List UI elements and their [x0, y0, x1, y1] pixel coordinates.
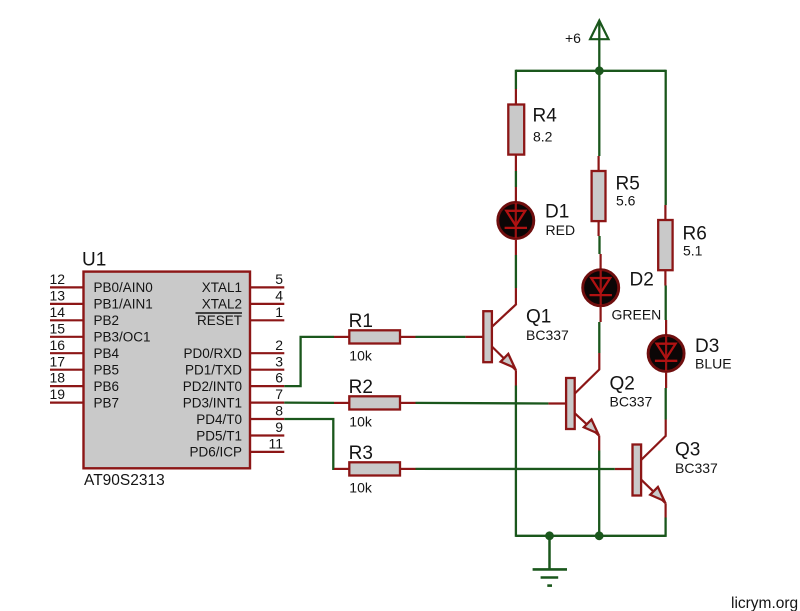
pin 9 PD5/T1 — [196, 419, 284, 443]
pin 18 PB6 — [50, 370, 120, 394]
microcontroller U1 box — [84, 272, 251, 469]
svg-text:10k: 10k — [349, 480, 373, 496]
pin stub R5 bottom — [597, 221, 599, 236]
pin stub Q3 emitter — [664, 503, 666, 517]
svg-text:PB3/OC1: PB3/OC1 — [94, 330, 151, 345]
pin stub R2 left — [334, 402, 349, 404]
svg-text:RED: RED — [546, 222, 576, 238]
svg-text:D3: D3 — [695, 336, 719, 357]
LED D1 — [498, 202, 575, 239]
transistor Q2 — [548, 369, 652, 436]
svg-text:BC337: BC337 — [526, 327, 569, 343]
svg-text:PD3/INT1: PD3/INT1 — [183, 395, 242, 410]
svg-text:5: 5 — [275, 271, 283, 287]
wire D2 to Q2 collector — [598, 322, 600, 353]
svg-text:1: 1 — [275, 304, 283, 320]
junction power rail — [595, 66, 604, 75]
wire R5 to D2 — [598, 236, 600, 254]
svg-text:15: 15 — [50, 320, 66, 336]
svg-text:R5: R5 — [616, 174, 640, 195]
pin stub Q2 collector — [598, 353, 600, 369]
wire Q1 emitter to ground rail — [515, 386, 517, 537]
svg-text:13: 13 — [50, 288, 66, 304]
pin stub R3 right — [400, 468, 416, 470]
wire rail to R6 — [665, 70, 667, 205]
pin stub R1 left — [334, 336, 349, 338]
svg-text:17: 17 — [50, 353, 66, 369]
svg-text:AT90S2313: AT90S2313 — [84, 472, 165, 489]
svg-text:D2: D2 — [630, 270, 654, 291]
svg-text:PB0/AIN0: PB0/AIN0 — [94, 280, 153, 295]
svg-text:12: 12 — [50, 271, 66, 287]
svg-text:R3: R3 — [349, 443, 373, 464]
svg-text:PB5: PB5 — [94, 363, 120, 378]
wire R3 to Q3 base — [416, 468, 615, 470]
svg-text:RESET: RESET — [197, 313, 242, 328]
pin stub R5 top — [597, 156, 599, 171]
pin stub Q1 collector — [515, 288, 517, 304]
svg-text:U1: U1 — [82, 250, 106, 271]
svg-text:PD4/T0: PD4/T0 — [196, 412, 242, 427]
pin stub R2 right — [400, 402, 416, 404]
svg-text:10k: 10k — [349, 414, 373, 430]
wire power vertical — [598, 22, 600, 71]
wire D1 to Q1 collector — [515, 255, 517, 288]
pin 15 PB3 — [50, 320, 151, 344]
pin 12 PB0 — [50, 271, 153, 295]
svg-text:Q2: Q2 — [610, 374, 635, 395]
power symbol arrow — [590, 21, 608, 40]
wire R6 to D3 — [665, 286, 667, 321]
svg-text:XTAL2: XTAL2 — [202, 297, 242, 312]
svg-text:BC337: BC337 — [675, 460, 718, 476]
pin stub D1 bottom — [515, 239, 517, 255]
svg-text:D1: D1 — [545, 202, 569, 223]
pin 7 PD3/INT1 — [183, 386, 285, 410]
svg-text:19: 19 — [50, 386, 66, 402]
wire Q3 emitter to ground rail — [664, 518, 666, 537]
pin stub D2 top — [599, 254, 601, 270]
svg-text:5.1: 5.1 — [683, 243, 703, 259]
svg-text:+6: +6 — [565, 30, 581, 46]
svg-text:PD5/T1: PD5/T1 — [196, 428, 242, 443]
svg-text:PD1/TXD: PD1/TXD — [185, 363, 242, 378]
svg-text:PB2: PB2 — [94, 313, 120, 328]
pin stub D1 top — [515, 187, 517, 202]
svg-text:XTAL1: XTAL1 — [202, 280, 242, 295]
wire top rail — [516, 70, 666, 72]
pin 16 PB4 — [50, 337, 120, 361]
pin stub D3 bottom — [665, 372, 667, 388]
svg-text:PB7: PB7 — [94, 395, 120, 410]
ground — [533, 536, 567, 586]
junction ground rail left — [545, 531, 554, 540]
pin 8 PD4/T0 — [196, 403, 284, 427]
svg-text:PB1/AIN1: PB1/AIN1 — [94, 297, 153, 312]
pin stub D2 bottom — [599, 306, 601, 322]
pin stub R4 bottom — [515, 155, 517, 171]
svg-text:R4: R4 — [533, 106, 558, 127]
svg-text:GREEN: GREEN — [612, 307, 662, 323]
svg-text:11: 11 — [268, 436, 283, 452]
svg-text:licrym.org: licrym.org — [731, 595, 798, 611]
wire R1 to Q1 base — [416, 336, 466, 338]
wire pin6 to R1 — [284, 337, 334, 386]
wire pin7 to R2 — [284, 401, 334, 404]
svg-text:14: 14 — [50, 304, 66, 320]
transistor Q3 — [615, 435, 718, 503]
wire R4 to D1 — [515, 171, 517, 187]
svg-text:10k: 10k — [349, 348, 373, 364]
svg-text:Q1: Q1 — [526, 307, 551, 328]
pin stub Q3 collector — [665, 420, 667, 436]
wire rail to R4 — [515, 70, 517, 89]
svg-text:PD2/INT0: PD2/INT0 — [183, 379, 242, 394]
resistor R3 — [349, 462, 400, 475]
svg-text:18: 18 — [50, 370, 66, 386]
svg-text:BLUE: BLUE — [695, 356, 732, 372]
svg-text:BC337: BC337 — [610, 394, 653, 410]
svg-text:8.2: 8.2 — [533, 129, 553, 145]
pin stub Q2 emitter — [598, 436, 600, 451]
pin stub R1 right — [400, 336, 416, 338]
pin 1 RESET (overline) — [196, 304, 285, 328]
pin stub D3 top — [665, 320, 667, 335]
svg-text:7: 7 — [275, 386, 283, 402]
pin stub R3 left — [334, 468, 349, 470]
svg-text:PB6: PB6 — [94, 379, 120, 394]
pin 3 PD1/TXD — [185, 353, 284, 377]
svg-text:6: 6 — [275, 370, 283, 386]
pin 13 PB1 — [50, 288, 153, 312]
resistor R2 — [349, 396, 400, 409]
wire ground rail — [516, 535, 666, 537]
pin 4 XTAL2 — [202, 288, 285, 312]
pin 2 PD0/RXD — [183, 337, 284, 361]
svg-text:8: 8 — [275, 403, 283, 419]
transistor Q1 — [465, 304, 569, 370]
pin stub R6 bottom — [664, 270, 666, 285]
pin 19 PB7 — [50, 386, 120, 410]
resistor R6 — [658, 220, 672, 270]
wire rail to R5 — [598, 71, 600, 156]
svg-text:PD0/RXD: PD0/RXD — [183, 346, 242, 361]
svg-text:Q3: Q3 — [675, 440, 700, 461]
pin stub R6 top — [664, 205, 666, 220]
svg-text:2: 2 — [275, 337, 283, 353]
svg-text:4: 4 — [275, 288, 283, 304]
LED D2 — [583, 270, 662, 323]
pin 11 PD6/ICP — [189, 436, 284, 460]
svg-text:9: 9 — [275, 419, 283, 435]
svg-text:PD6/ICP: PD6/ICP — [189, 445, 242, 460]
wire pin8 to R3 — [284, 419, 334, 469]
svg-text:5.6: 5.6 — [616, 193, 636, 209]
pin 6 PD2/INT0 — [183, 370, 285, 394]
pin 17 PB5 — [50, 353, 120, 377]
wire R2 to Q2 base — [416, 402, 549, 405]
LED D3 — [648, 335, 731, 371]
svg-text:R1: R1 — [349, 311, 373, 332]
resistor R5 — [592, 171, 606, 221]
resistor R1 — [349, 330, 400, 343]
resistor R4 — [508, 105, 524, 155]
pin stub R4 top — [515, 89, 517, 105]
svg-text:3: 3 — [275, 353, 283, 369]
wire D3 to Q3 collector — [665, 388, 667, 420]
wire Q2 emitter to ground rail — [598, 451, 600, 537]
pin stub Q1 emitter — [515, 370, 517, 385]
svg-text:PB4: PB4 — [94, 346, 120, 361]
junction ground rail right — [595, 531, 604, 540]
svg-text:16: 16 — [50, 337, 66, 353]
svg-text:R6: R6 — [683, 224, 707, 245]
pin 14 PB2 — [50, 304, 120, 328]
svg-text:R2: R2 — [349, 377, 373, 398]
pin 5 XTAL1 — [202, 271, 285, 295]
